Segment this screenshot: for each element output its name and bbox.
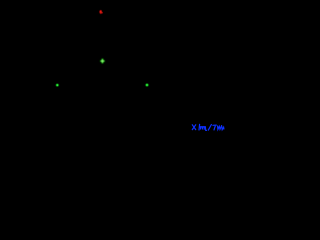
glyph m with bar (200, 126, 205, 128)
sky background (0, 0, 225, 135)
green crosshair (centre) (100, 59, 105, 64)
green star (bottom left) (55, 83, 60, 88)
red star (top centre) (99, 9, 103, 14)
blue signature text (bottom right) (192, 124, 224, 130)
zigzag W (218, 126, 222, 129)
glyph f stroke (198, 124, 201, 130)
slash (208, 125, 211, 131)
glyph X (192, 125, 195, 130)
green star (bottom right) (145, 83, 150, 88)
glyph 7 (213, 125, 216, 130)
